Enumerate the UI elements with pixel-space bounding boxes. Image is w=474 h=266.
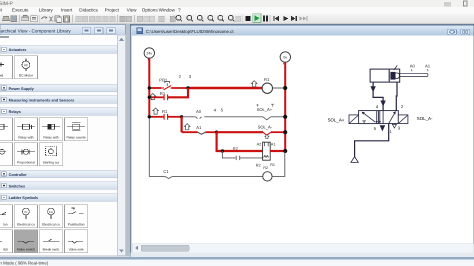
svg-text:SOL_A+: SOL_A+ — [328, 117, 345, 122]
wire counter to right rail — [270, 150, 285, 152]
svg-text:A2: A2 — [257, 143, 262, 147]
wire coil R2 to right rail — [272, 152, 285, 177]
relay contact R1 self-hold — [164, 94, 168, 100]
svg-text:A1: A1 — [425, 64, 431, 69]
svg-text:Make switch: Make switch — [17, 247, 35, 251]
svg-text:Window: Window — [159, 8, 176, 13]
wire rung2 mid — [168, 116, 182, 118]
svg-text:Actuators: Actuators — [9, 48, 27, 52]
counter reset contact — [236, 156, 240, 160]
counter contact C1 — [165, 176, 173, 178]
relay coil R2 — [263, 172, 272, 181]
node rung2 left rail — [148, 115, 151, 118]
wire rung5 to coil — [173, 175, 263, 177]
0V supply terminal — [280, 52, 290, 65]
wire coil R1 to right rail — [273, 87, 286, 89]
svg-text:SOL_A-: SOL_A- — [417, 116, 433, 121]
pin mark at SOL_A+ left — [256, 104, 258, 107]
flow arrow tube left upper — [370, 86, 375, 92]
node counter right rail — [283, 149, 287, 153]
limit switch contact A1 (closed) — [198, 132, 206, 134]
svg-text:Valve sole: Valve sole — [69, 247, 84, 251]
wire rung2 to A0 — [182, 116, 196, 118]
state arrow at contact R1 hold — [150, 94, 156, 100]
wire rung3 to SOL_A- — [217, 131, 263, 133]
svg-text:View: View — [127, 8, 138, 13]
compressed air supply — [351, 157, 358, 163]
svg-text:Electrical co: Electrical co — [42, 222, 60, 226]
document window — [130, 24, 474, 257]
svg-text:Pushbutton: Pushbutton — [68, 222, 85, 226]
counter C1 body — [263, 142, 271, 160]
pin mark T at SOL_A+ — [271, 104, 274, 107]
wire rung3 left — [182, 131, 198, 133]
svg-text:A1: A1 — [196, 125, 202, 130]
svg-text:A1: A1 — [271, 143, 276, 147]
svg-text:ion Mode ( 98% Real-time): ion Mode ( 98% Real-time) — [0, 261, 49, 266]
valve solenoid SOL_A- — [263, 132, 271, 135]
pushbutton PB1 — [161, 81, 172, 89]
node rung2 right rail — [283, 115, 287, 119]
svg-text:Library: Library — [39, 8, 54, 13]
valve centre passage lines — [376, 111, 381, 124]
node self-hold left rail — [148, 96, 151, 99]
svg-text:Electrical co: Electrical co — [17, 222, 35, 226]
svg-text:R1: R1 — [160, 91, 166, 96]
node rung2 branch — [180, 115, 183, 118]
wire rung2 left — [149, 116, 163, 118]
cylinder sensor tick A0 — [410, 69, 413, 71]
svg-text:oid: oid — [0, 74, 3, 78]
svg-text:SOL_A+: SOL_A+ — [257, 107, 273, 112]
svg-text:SOL_A-: SOL_A- — [258, 124, 273, 129]
wire right rail energized — [284, 62, 286, 151]
relay contact R1 rung2 — [164, 114, 168, 120]
relay coil R1 — [262, 83, 272, 93]
svg-text:DC Motor: DC Motor — [19, 74, 34, 78]
svg-text:Break switc: Break switc — [43, 247, 60, 251]
svg-text:PB1: PB1 — [159, 78, 168, 83]
svg-text:R1: R1 — [264, 77, 270, 82]
svg-text:0v: 0v — [283, 56, 287, 60]
state arrow at relay coil R1 — [251, 81, 257, 87]
svg-text:Project: Project — [105, 8, 120, 13]
node rung1 junction — [186, 86, 189, 89]
valve solenoid SOL_A+ — [263, 117, 271, 120]
node rung1 left rail — [148, 86, 151, 89]
wire SOL_A- to right rail — [271, 131, 285, 133]
svg-text:archical View - Component Libr: archical View - Component Library — [1, 28, 72, 33]
wire branch down to counter — [217, 132, 263, 151]
svg-text:C1: C1 — [163, 169, 169, 174]
svg-text:A0: A0 — [410, 64, 416, 69]
svg-text:SIM-P: SIM-P — [0, 1, 14, 7]
svg-text:Relay counte: Relay counte — [66, 135, 85, 139]
svg-text:Relay with: Relay with — [43, 135, 58, 139]
limit switch contact A0 (open) — [196, 117, 202, 119]
pilot solenoid SOL_A- box — [398, 115, 408, 124]
left panel — [0, 25, 131, 257]
state arrow at contact R1 rung2 — [153, 108, 159, 114]
svg-text:Ladder Symbols: Ladder Symbols — [9, 196, 39, 200]
pneumatic cylinder A — [370, 65, 428, 82]
node rung3 right rail — [283, 130, 287, 134]
wire left rail energized — [148, 58, 150, 117]
wire rung1 left segment — [148, 87, 161, 89]
svg-text:Starting cur: Starting cur — [43, 160, 61, 164]
exhaust triangle port 3 — [392, 124, 396, 128]
svg-text:Options: Options — [142, 8, 159, 13]
flow arrow tube left lower — [380, 101, 385, 107]
wire branch down to rung3 — [181, 117, 183, 132]
svg-text:Controller: Controller — [9, 173, 28, 177]
wire reset to counter — [240, 157, 263, 159]
svg-text:C:\Users\user\Desktop\FLUIDSIM: C:\Users\user\Desktop\FLUIDSIM\noname.ct — [146, 29, 234, 34]
svg-text:?: ? — [178, 8, 181, 13]
pneumatic tube cylinder left port to valve port 4 — [373, 82, 383, 111]
svg-text:R1: R1 — [162, 109, 168, 114]
svg-text:M: M — [24, 63, 27, 67]
pneumatic tube port 1 to supply — [355, 124, 389, 157]
svg-text:24v: 24v — [49, 210, 54, 214]
valve right position arrows — [383, 111, 396, 124]
menu bar — [0, 7, 474, 14]
24V supply terminal — [144, 48, 154, 61]
state arrow at contact A1 — [184, 124, 190, 130]
svg-text:R2: R2 — [233, 146, 239, 151]
valve V1 body 5/2-way — [359, 111, 399, 124]
svg-text:24v: 24v — [146, 52, 152, 56]
node rung3 branch — [215, 131, 218, 134]
valve left position arrows — [362, 112, 376, 124]
wire self-hold to junction — [168, 88, 188, 97]
pneumatic tube cylinder right port to valve port 2 — [395, 82, 398, 111]
wire rung1 to coil (bold energized) — [172, 87, 189, 89]
svg-text:Proportional: Proportional — [17, 160, 35, 164]
wire left rail lower — [149, 117, 165, 177]
svg-text:1: 1 — [390, 130, 392, 134]
wire SOL_A+ to right rail — [271, 116, 285, 118]
svg-text:A0: A0 — [196, 109, 202, 114]
wire self-hold branch — [149, 96, 163, 98]
state arrow below SOL_A- — [265, 135, 269, 139]
pilot solenoid SOL_A+ box — [349, 115, 359, 124]
svg-text:Didactics: Didactics — [79, 8, 98, 13]
exhaust flow arrow port 5 — [380, 125, 386, 131]
svg-text:Insert: Insert — [61, 8, 73, 13]
toolbar — [0, 14, 474, 25]
svg-text:Measuring instruments and Sens: Measuring instruments and Sensors — [9, 98, 75, 102]
svg-text:Power Supply: Power Supply — [9, 87, 35, 91]
svg-text:Execute: Execute — [12, 8, 29, 13]
svg-text:R1: R1 — [270, 163, 275, 167]
cylinder sensor tick A1 — [426, 69, 429, 71]
svg-text:R2: R2 — [256, 164, 261, 168]
svg-text:ton: ton — [3, 222, 8, 226]
wire rung3 mid — [205, 131, 217, 133]
svg-text:Switches: Switches — [9, 184, 25, 188]
wire counter reset branch — [222, 151, 235, 158]
svg-text:R2: R2 — [263, 166, 268, 170]
svg-text:Relay with: Relay with — [18, 135, 33, 139]
svg-text:Relays: Relays — [9, 110, 21, 114]
node counter branch — [221, 149, 224, 152]
wire rung2 to SOL_A+ — [204, 116, 263, 118]
bottom bars — [0, 257, 474, 260]
svg-text:itch: itch — [3, 247, 8, 251]
node rung1 right rail — [283, 86, 287, 90]
